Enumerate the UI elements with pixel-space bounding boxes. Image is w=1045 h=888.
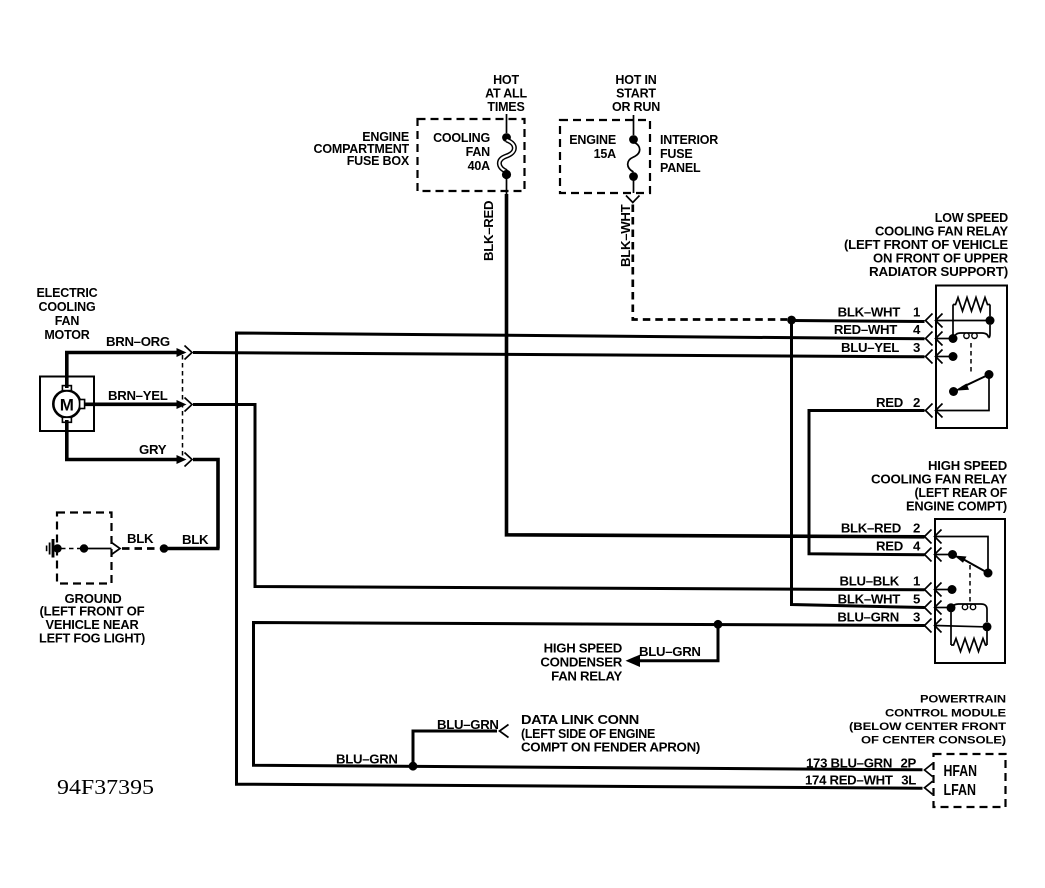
svg-text:173 BLU–GRN: 173 BLU–GRN (806, 755, 892, 770)
svg-text:HFAN: HFAN (944, 763, 978, 780)
svg-text:HOT: HOT (493, 73, 519, 87)
label BLU-GRN 3 (K2 pin 3) (837, 610, 920, 625)
label HIGH SPEED CONDENSER FAN RELAY (540, 641, 622, 684)
K2 pin 1 dot (948, 585, 957, 594)
fuse ENGINE 15A (569, 115, 639, 193)
svg-text:BLU–GRN: BLU–GRN (837, 610, 899, 625)
wire BLK-WHT (dashed, fuse panel to junction) (633, 205, 787, 320)
wire BLU-GRN (branch to data link connector) (413, 731, 497, 766)
K1 pin 3 dot (949, 352, 958, 361)
label HIGH SPEED COOLING FAN RELAY (LEFT REAR OF ENGINE COMPT) (871, 459, 1008, 514)
wire BLU-YEL (connector to low speed relay pin 3) (193, 353, 925, 357)
svg-text:ENGINE: ENGINE (569, 133, 616, 147)
svg-text:174 RED–WHT: 174 RED–WHT (805, 772, 893, 787)
svg-text:2: 2 (913, 521, 920, 536)
svg-text:ON FRONT OF UPPER: ON FRONT OF UPPER (873, 252, 1008, 266)
svg-text:ELECTRIC: ELECTRIC (37, 286, 98, 300)
svg-text:AT ALL: AT ALL (485, 87, 527, 101)
svg-text:FUSE: FUSE (660, 147, 693, 161)
label DATA LINK CONN (LEFT SIDE OF ENGINE COMPT ON FENDER APRON) (521, 712, 700, 755)
label 173 BLU-GRN 2P (806, 755, 917, 770)
K2 pin 3 dot (983, 622, 992, 631)
connector (PCM pin 3L) (925, 781, 933, 794)
svg-text:ENGINE COMPT): ENGINE COMPT) (906, 500, 1007, 514)
wire BRN-ORG (motor top lead) (67, 353, 180, 389)
svg-text:FAN: FAN (466, 145, 491, 159)
junction BLK node (160, 544, 169, 553)
svg-text:FAN RELAY: FAN RELAY (551, 669, 622, 684)
K1 pin 1 internal line (936, 320, 990, 322)
wire BRN-YEL (motor right lead) (85, 402, 180, 406)
svg-text:HIGH SPEED: HIGH SPEED (544, 641, 622, 656)
svg-text:BLK–WHT: BLK–WHT (838, 305, 901, 320)
svg-text:INTERIOR: INTERIOR (660, 133, 718, 147)
svg-text:COOLING FAN RELAY: COOLING FAN RELAY (875, 225, 1009, 239)
svg-text:BLK: BLK (182, 532, 209, 547)
svg-text:BLK: BLK (127, 531, 154, 546)
label BLK-RED 2 (K2 pin 2) (841, 521, 920, 536)
svg-text:LFAN: LFAN (944, 782, 977, 799)
label ELECTRIC COOLING FAN MOTOR (37, 286, 98, 342)
svg-text:HOT IN: HOT IN (615, 73, 656, 87)
svg-text:BLU–BLK: BLU–BLK (840, 574, 900, 589)
svg-text:HIGH SPEED: HIGH SPEED (928, 459, 1007, 473)
svg-text:(BELOW CENTER FRONT: (BELOW CENTER FRONT (849, 721, 1006, 733)
wire BLK-RED (fuse to high speed relay pin 2) (506, 176, 508, 196)
svg-text:(LEFT REAR OF: (LEFT REAR OF (914, 486, 1007, 500)
K1 pin 3 internal line (936, 356, 950, 358)
label BLK-WHT 5 (K2 pin 5) (838, 592, 920, 607)
K1 pin 4 dot (949, 334, 958, 343)
svg-text:LOW SPEED: LOW SPEED (935, 211, 1008, 225)
K1 pin chevrons (926, 314, 943, 418)
label INTERIOR FUSE PANEL (660, 133, 718, 175)
svg-text:FUSE BOX: FUSE BOX (347, 154, 410, 168)
label BLU-YEL 3 (K1 pin 3) (841, 340, 920, 355)
svg-text:3: 3 (913, 340, 920, 355)
wire GRY (motor bottom lead) (67, 420, 180, 460)
K2 switch-to-coil dashed link (969, 565, 971, 602)
K2 pin 1 internal line (935, 589, 949, 591)
K2 pin 3 internal line (935, 626, 983, 627)
K1 node dot (pin 1 / resistor) (986, 316, 995, 325)
svg-text:BLU–GRN: BLU–GRN (639, 644, 701, 659)
svg-text:4: 4 (913, 539, 921, 554)
label GROUND (LEFT FRONT OF VEHICLE NEAR LEFT FOG LIGHT) (39, 592, 145, 646)
label RED 2 (K1 pin 2) (876, 395, 920, 410)
label 174 RED-WHT 3L (805, 772, 916, 787)
K2 switch common dot (984, 569, 993, 578)
svg-text:2P: 2P (900, 755, 916, 770)
svg-text:COMPT ON FENDER APRON): COMPT ON FENDER APRON) (521, 740, 700, 755)
svg-text:RED: RED (876, 539, 903, 554)
fuse COOLING FAN 40A (433, 114, 514, 179)
K2 pin 5 dot (947, 603, 956, 612)
resistor (K1 coil suppression) (953, 298, 990, 336)
svg-text:40A: 40A (468, 159, 491, 173)
arrow (to condenser fan relay) (626, 655, 641, 667)
svg-text:LEFT FOG LIGHT): LEFT FOG LIGHT) (39, 632, 145, 646)
svg-text:2: 2 (913, 395, 920, 410)
K2 coil (951, 604, 987, 622)
svg-text:1: 1 (913, 305, 920, 320)
ground G100 (dashed box) (57, 513, 112, 584)
K2 pin 5 internal line (935, 607, 949, 609)
svg-text:(LEFT FRONT OF: (LEFT FRONT OF (40, 605, 146, 619)
label HOT AT ALL TIMES (485, 73, 527, 114)
svg-text:POWERTRAIN: POWERTRAIN (920, 694, 1006, 706)
ground terminal dot (80, 544, 88, 552)
wire BLK (solid to GRY corner) (164, 547, 220, 551)
resistor (K2 coil suppression) (951, 611, 987, 652)
svg-text:3L: 3L (901, 772, 916, 787)
svg-text:START: START (616, 87, 656, 101)
svg-text:BLK–WHT: BLK–WHT (838, 592, 901, 607)
ground symbol (47, 539, 53, 558)
svg-text:5: 5 (913, 592, 920, 607)
motor M1 (electric cooling fan motor) (40, 377, 94, 432)
svg-text:PANEL: PANEL (660, 161, 701, 175)
wire BLK-WHT (junction to low speed relay pin 1) (792, 321, 925, 322)
svg-text:BLK–RED: BLK–RED (481, 201, 496, 261)
svg-text:COOLING: COOLING (39, 300, 96, 314)
svg-text:1: 1 (913, 574, 920, 589)
svg-text:3: 3 (913, 610, 920, 625)
svg-text:BLU–YEL: BLU–YEL (841, 340, 899, 355)
K2 pin chevrons (925, 530, 942, 633)
K1 switch arm with arrowhead (955, 375, 990, 391)
svg-text:(LEFT FRONT OF VEHICLE: (LEFT FRONT OF VEHICLE (844, 238, 1008, 252)
K2 switch arm with arrowhead (954, 556, 988, 574)
svg-text:RED: RED (876, 395, 903, 410)
connector (fuse panel output) (626, 196, 640, 203)
svg-text:TIMES: TIMES (487, 100, 524, 114)
svg-text:MOTOR: MOTOR (44, 328, 89, 342)
label POWERTRAIN CONTROL MODULE (BELOW CENTER FRONT OF CENTER CONSOLE) (849, 694, 1007, 747)
relay K1 low speed cooling fan relay (box) (936, 286, 1007, 429)
wire BLK (dashed segment) (122, 547, 159, 550)
wire RED-WHT (low speed relay pin 4 to PCM pin 3L) (237, 333, 925, 788)
svg-text:BRN–YEL: BRN–YEL (108, 388, 168, 403)
label LOW SPEED COOLING FAN RELAY (LEFT FRONT OF VEHICLE ON FRONT OF UPPER RADIATOR SUPPORT) (844, 211, 1009, 279)
engine compartment fuse box (dashed) (418, 119, 525, 191)
wire RED (low speed relay pin 2 to high speed relay pin 4) (809, 411, 925, 555)
connector (ground lead) (112, 543, 121, 555)
interior fuse panel box (dashed) (560, 120, 650, 193)
svg-text:BRN–ORG: BRN–ORG (106, 334, 170, 349)
wire BLU-GRN (high speed relay pin 3 to PCM pin 2P) (254, 623, 925, 770)
wire BLK-WHT (junction down to high speed relay pin 5) (792, 321, 925, 608)
K2 pin 4 internal line (935, 554, 950, 556)
label ENGINE COMPARTMENT FUSE BOX (314, 130, 410, 168)
svg-text:CONTROL MODULE: CONTROL MODULE (885, 708, 1007, 720)
inline connector C100 (motor connector, 3 cavities) (177, 346, 193, 467)
K1 switch common dot (985, 370, 994, 379)
wire (terminal to connector) (88, 548, 112, 550)
label RED-WHT 4 (K1 pin 4) (834, 322, 921, 337)
wire BLU-BLK (connector to high speed relay pin 1) (193, 405, 925, 590)
svg-text:COOLING: COOLING (433, 131, 490, 145)
junction BLK-WHT node (787, 316, 796, 325)
wire (ground symbol to terminal, dashed) (61, 548, 80, 550)
svg-text:94F37395: 94F37395 (57, 775, 154, 799)
wire BLU-GRN (branch to high speed condenser fan relay) (638, 624, 718, 661)
PCM powertrain control module (dashed box) (934, 754, 1006, 807)
svg-text:CONDENSER: CONDENSER (540, 655, 622, 670)
relay K2 high speed cooling fan relay (box) (935, 519, 1005, 663)
svg-text:RED–WHT: RED–WHT (834, 322, 897, 337)
svg-text:GRY: GRY (139, 442, 167, 457)
svg-text:OR RUN: OR RUN (612, 100, 660, 114)
svg-text:BLU–GRN: BLU–GRN (437, 717, 499, 732)
K1 coil-to-switch dashed link (970, 343, 972, 372)
K1 pin 4 internal line (936, 338, 951, 340)
svg-text:BLK–RED: BLK–RED (841, 521, 901, 536)
svg-text:RADIATOR SUPPORT): RADIATOR SUPPORT) (869, 265, 1008, 279)
svg-text:(LEFT SIDE OF ENGINE: (LEFT SIDE OF ENGINE (521, 726, 655, 741)
K2 pin 4 dot (948, 550, 957, 559)
wire GRY (connector to ground junction) (193, 460, 218, 549)
svg-text:BLU–GRN: BLU–GRN (336, 752, 398, 767)
label BLU-BLK 1 (K2 pin 1) (840, 574, 920, 589)
svg-text:15A: 15A (594, 147, 617, 161)
svg-text:4: 4 (913, 322, 921, 337)
label BLK-WHT 1 (K1 pin 1) (838, 305, 920, 320)
junction BLU-GRN node (condenser branch) (714, 620, 723, 629)
svg-text:FAN: FAN (55, 314, 80, 328)
connector (data link) (500, 725, 509, 738)
label RED 4 (K2 pin 4) (876, 539, 921, 554)
svg-text:VEHICLE NEAR: VEHICLE NEAR (46, 618, 139, 632)
svg-text:OF CENTER CONSOLE): OF CENTER CONSOLE) (861, 735, 1006, 747)
label HOT IN START OR RUN (612, 73, 660, 114)
K1 switch contact dot (949, 387, 958, 396)
svg-text:COOLING FAN RELAY: COOLING FAN RELAY (871, 473, 1008, 487)
K1 coil (953, 325, 990, 339)
svg-text:M: M (60, 396, 74, 415)
ground node dot (53, 544, 61, 552)
junction BLU-GRN node (data link branch) (409, 762, 418, 771)
K2 pin 2 internal line (935, 537, 988, 570)
K1 pin 2 internal line (936, 378, 989, 411)
connector (PCM pin 2P) (925, 764, 933, 777)
svg-text:DATA LINK CONN: DATA LINK CONN (521, 712, 639, 727)
svg-text:BLK–WHT: BLK–WHT (618, 204, 633, 267)
